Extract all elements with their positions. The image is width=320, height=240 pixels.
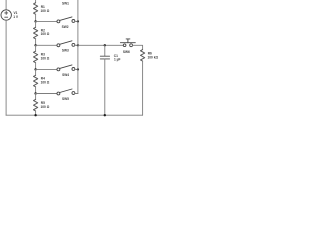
svg-text:SW4: SW4 [62,73,69,77]
svg-text:SW5: SW5 [62,97,69,101]
svg-text:SW3: SW3 [62,48,69,52]
svg-text:1 V: 1 V [13,15,19,19]
wire left-top from V1 to top edge [5,0,7,10]
resistor R4 [34,75,38,87]
switch SW6 pushbutton [120,39,135,47]
wire bottom rail [6,114,143,116]
svg-text:100 Ω: 100 Ω [41,80,50,84]
wire R4 top lead [35,69,37,75]
svg-text:100 Ω: 100 Ω [41,56,50,60]
label V1 value [13,11,19,19]
wire row2 left [36,44,57,46]
label R4 100 Ohm [41,77,50,85]
label R5 100 Ohm [41,101,50,109]
switch SW5 [57,89,75,95]
wire R3 to junction3 [35,63,37,70]
wire row4 right to bus corner [75,93,78,95]
svg-text:100 Ω: 100 Ω [41,105,50,109]
switch SW2 [57,17,75,23]
node junction1 [34,20,36,22]
wire R2 to junction2 [35,39,37,46]
resistor R1 [34,3,38,15]
svg-text:100 Ω: 100 Ω [41,32,50,36]
wire R4 to junction4 [35,87,37,94]
wire row3 right [75,68,78,70]
wire SW6 to R6 corner [132,45,142,49]
label R2 100 Ohm [41,29,50,37]
switch SW3 [57,41,75,47]
wire R2 top lead [35,21,37,27]
svg-text:SW2: SW2 [62,25,69,29]
label C1 1uF [114,54,121,62]
node bus junction row3 [77,68,79,70]
wire RC branch top [78,44,123,46]
wire left vertical from V1 to bottom [5,20,7,115]
node C1 bottom junction [104,114,106,116]
label R6 100 kOhm [148,52,159,60]
switch SW4 [57,65,75,71]
wire R1 to junction1 [35,14,37,21]
resistor R2 [34,27,38,39]
node junction4 [34,92,36,94]
wire R5 top lead [35,94,37,100]
node junction bottom chain [34,114,36,116]
wire row3 left [36,68,57,70]
svg-text:SW6: SW6 [123,50,130,54]
resistor R6 [141,50,145,62]
wire bus vertical [77,0,79,94]
resistor R3 [34,51,38,63]
svg-text:100 kΩ: 100 kΩ [148,56,159,60]
wire row1 left [36,20,57,22]
node C1 top junction [104,44,106,46]
label R1 100 Ohm [41,5,50,13]
wire R3 top lead [35,45,37,51]
node junction3 [34,68,36,70]
node bus junction row2 [77,44,79,46]
wire R5 bottom lead [35,111,37,115]
wire row1 right [75,20,78,22]
resistor R5 [34,99,38,111]
wire row2 right [75,44,78,46]
capacitor C1 [100,45,109,115]
svg-text:1 µF: 1 µF [114,58,120,62]
wire row4 left [36,93,57,95]
label R3 100 Ohm [41,53,50,61]
node bus junction row1 [77,20,79,22]
voltage source V1 [1,10,11,20]
node junction2 [34,44,36,46]
svg-text:100 Ω: 100 Ω [41,9,50,13]
wire R6 bottom lead [142,61,144,115]
svg-text:SW1: SW1 [62,1,69,5]
wire resistor-chain top lead [35,0,37,3]
